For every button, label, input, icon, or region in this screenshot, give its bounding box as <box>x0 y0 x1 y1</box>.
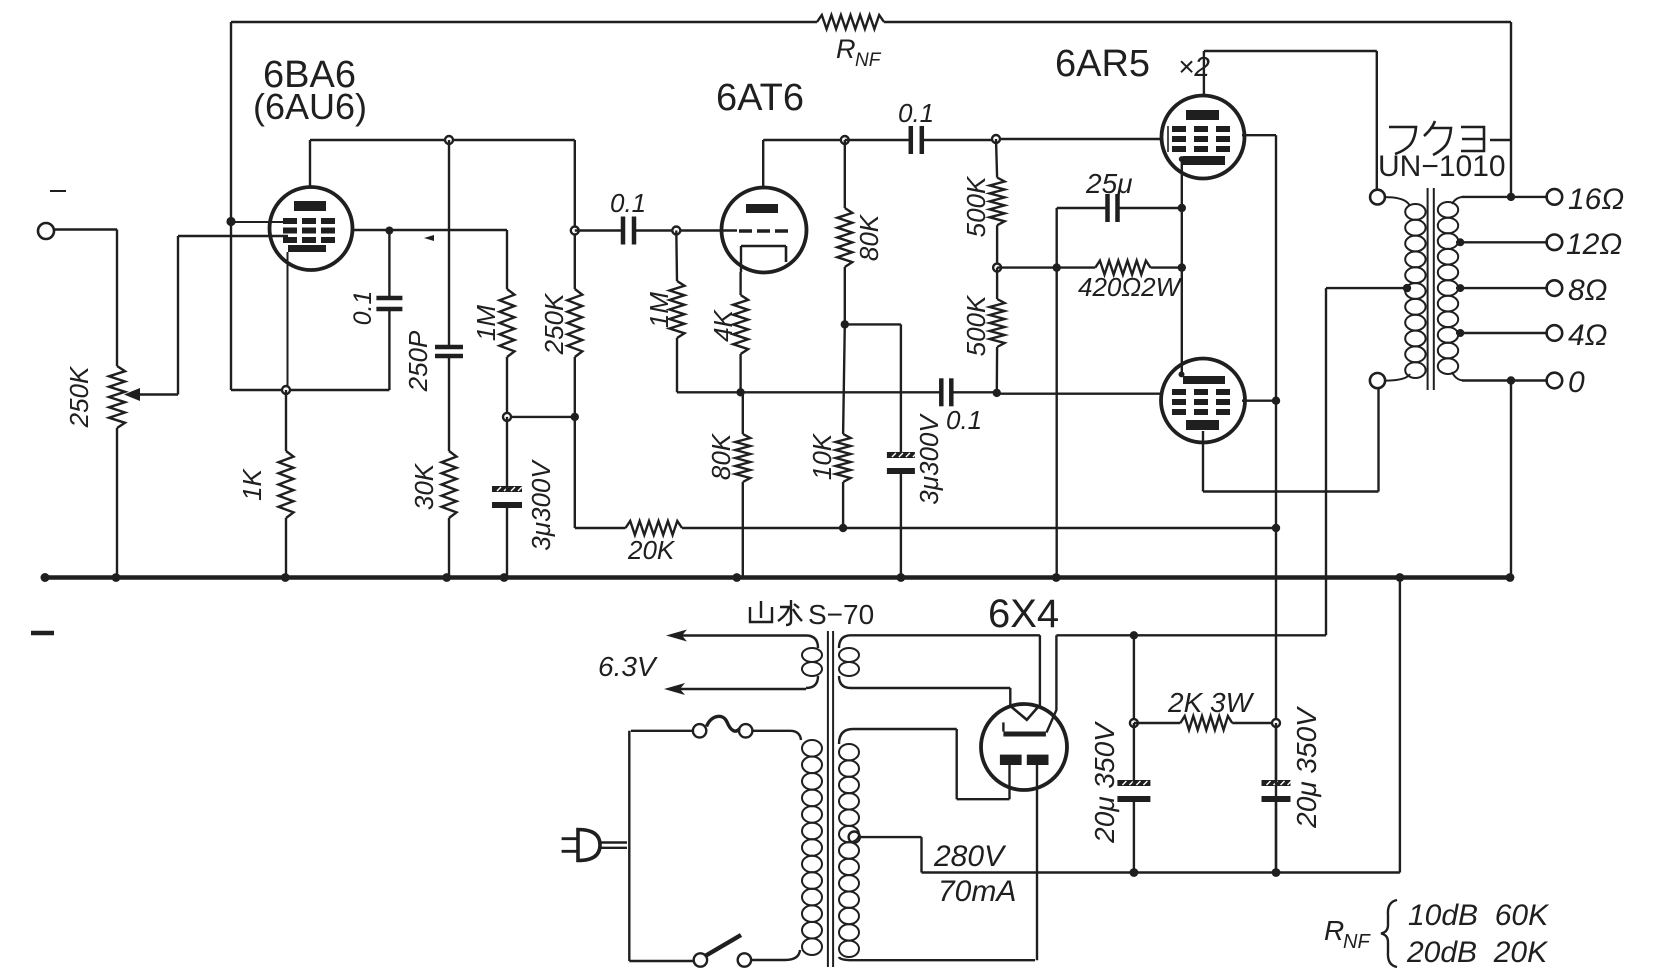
capacitor 20u 350V second <box>1262 780 1292 802</box>
wire 6AR5 upper screen <box>1242 134 1276 136</box>
svg-text:70mA: 70mA <box>938 875 1016 908</box>
label 16 ohm <box>1568 183 1624 216</box>
label 0.1 coupling second <box>898 98 934 128</box>
junction screens at 20K line <box>1272 524 1280 532</box>
svg-text:NF: NF <box>1343 931 1371 953</box>
svg-text:6.3V: 6.3V <box>598 651 658 682</box>
svg-text:0.1: 0.1 <box>349 291 377 326</box>
wire 4 ohm tap <box>1456 329 1548 337</box>
svg-text:420Ω2W: 420Ω2W <box>1078 272 1183 302</box>
wire fuse to primary <box>752 731 801 740</box>
junction 80K plate load top <box>841 136 849 144</box>
wire pot top <box>116 230 118 367</box>
wire screen bypass leads <box>388 231 390 391</box>
junction 420ohm cathode <box>1178 263 1186 271</box>
6AT6 cathode <box>741 246 786 272</box>
junction 420ohm ground side <box>1053 263 1061 271</box>
ground bus <box>41 573 1512 582</box>
resistor 420ohm 2W <box>1095 261 1150 275</box>
svg-text:6X4: 6X4 <box>988 592 1059 636</box>
wire 500K upper leads <box>996 139 997 268</box>
svg-text:250P: 250P <box>403 330 433 392</box>
heater winding loops <box>802 648 822 676</box>
svg-text:×2: ×2 <box>1178 51 1210 82</box>
wire 6AR5 lower screen <box>1242 400 1276 402</box>
label 4K <box>708 308 738 341</box>
capacitor 3u300V second <box>887 452 917 474</box>
resistor 1M screen <box>500 289 515 357</box>
terminal 4 ohm <box>1547 325 1563 341</box>
svg-text:1M: 1M <box>644 292 674 328</box>
junction bus 30K <box>442 573 451 582</box>
wire 0 tap to ground bus <box>1510 381 1512 578</box>
junction 250P tap <box>445 136 453 144</box>
wire 6BA6 cathode lead <box>287 252 289 390</box>
wire 6AR5 lower plate <box>1203 388 1379 492</box>
resistor 4K cathode <box>733 295 748 354</box>
rectifier winding bottom lead <box>839 676 1010 688</box>
wire 80K plate load leads <box>844 140 846 324</box>
wire cathode node line <box>231 389 389 391</box>
tube 6AR5 lower <box>1161 359 1245 443</box>
terminal 12 ohm <box>1547 235 1563 251</box>
wire 80K decoupler leads <box>742 392 744 577</box>
label 4 ohm <box>1568 319 1608 352</box>
svg-text:0.1: 0.1 <box>898 98 934 128</box>
tube 6X4 <box>981 704 1067 790</box>
wire 2K leads <box>1134 722 1276 724</box>
svg-text:0.1: 0.1 <box>946 405 982 435</box>
junction bus 3u first <box>500 573 509 582</box>
label 250K plate <box>539 292 569 355</box>
junction bus cathode net <box>1052 573 1061 582</box>
svg-text:280V: 280V <box>933 840 1007 873</box>
rectifier heater winding loops <box>839 648 859 676</box>
wire 16 ohm line <box>1462 196 1548 198</box>
6X4 heater notch <box>1010 706 1039 720</box>
tube 6BA6 <box>270 187 353 270</box>
6X4 plates <box>1000 755 1049 765</box>
power switch <box>694 935 751 967</box>
svg-text:(6AU6): (6AU6) <box>253 86 367 127</box>
label 420ohm 2W <box>1078 272 1183 302</box>
wire 250P drop <box>448 140 450 347</box>
resistor 500K upper <box>990 178 1005 226</box>
label 20u 350V first <box>1089 721 1120 844</box>
OPT primary winding <box>1385 197 1426 381</box>
svg-text:20μ 350V: 20μ 350V <box>1291 706 1322 829</box>
primary winding loops <box>802 740 822 955</box>
label 6AT6 <box>716 77 804 119</box>
svg-text:3μ300V: 3μ300V <box>914 413 944 505</box>
label 2K 3W <box>1167 687 1255 718</box>
6AR5 upper cathode pin <box>1179 156 1185 162</box>
resistor 250K plate load <box>567 289 582 357</box>
svg-text:0.1: 0.1 <box>610 188 646 218</box>
resistor 1M grid 6AT6 <box>670 281 685 338</box>
junction 2K left <box>1130 719 1138 727</box>
svg-text:UN−1010: UN−1010 <box>1378 150 1506 183</box>
wire 20K to screens B+ <box>682 527 1276 529</box>
wire input to volume pot <box>54 228 117 230</box>
tube 6AT6 <box>722 188 807 273</box>
wire heater left leg <box>1009 688 1011 707</box>
HV winding top lead <box>839 729 957 744</box>
junction OPT CT <box>1403 284 1411 292</box>
label fukuyo katakana <box>1389 121 1512 155</box>
label 70mA <box>938 875 1016 908</box>
wire 20K feed <box>575 417 626 528</box>
svg-text:12Ω: 12Ω <box>1566 228 1622 261</box>
input terminal <box>38 191 66 239</box>
svg-text:500K: 500K <box>961 294 991 356</box>
junction screen bypass top <box>385 227 393 235</box>
wire 6X4 plate1 to HV top <box>957 729 1010 799</box>
HV winding bottom lead <box>839 957 1035 960</box>
label (6AU6) <box>253 86 367 127</box>
resistor 20K <box>626 521 683 535</box>
wire cathode tie line <box>1181 159 1183 374</box>
wire 3u second to bus <box>900 470 902 578</box>
wire feedback line y392 <box>741 391 997 393</box>
svg-text:4Ω: 4Ω <box>1568 319 1608 352</box>
resistor 2K 3W <box>1180 716 1232 730</box>
svg-text:250K: 250K <box>64 365 94 428</box>
OPT primary top terminal <box>1370 190 1385 205</box>
junction cathode-NFB drop <box>226 217 235 226</box>
label UN-1010 <box>1378 150 1506 183</box>
junction 4K-80K node <box>736 388 744 396</box>
wire 20u second leads <box>1275 723 1277 873</box>
wire 4K leads <box>739 272 741 392</box>
resistor 80K decoupler <box>735 434 750 482</box>
wire 1M bottom <box>506 357 508 417</box>
junction 500K upper <box>992 135 1000 143</box>
label 25u <box>1085 168 1132 199</box>
label 1M grid <box>644 292 674 328</box>
label 500K lower <box>961 294 991 356</box>
wire 420ohm leads <box>997 266 1182 268</box>
wire to lower 6AR5 grid <box>997 393 1163 395</box>
wire 20u first bottom <box>1133 723 1135 873</box>
svg-text:S−70: S−70 <box>808 599 874 630</box>
AC plug <box>562 830 627 861</box>
6AR5 lower internals <box>1172 376 1230 430</box>
label 250K pot <box>64 365 94 428</box>
svg-text:30K: 30K <box>409 462 439 510</box>
junction 2K right <box>1272 719 1280 727</box>
wire 6X4 plate2 to HV bottom <box>1036 765 1038 960</box>
OPT primary bottom terminal <box>1370 373 1385 388</box>
svg-text:80K: 80K <box>854 213 884 261</box>
junction 500K midpoint <box>993 264 1001 272</box>
wire 1K leads <box>285 390 287 578</box>
potentiometer 250K volume <box>109 366 125 428</box>
wire B+ from cathode <box>1047 635 1327 732</box>
svg-text:1K: 1K <box>237 467 267 500</box>
label 3u300V first <box>526 459 556 551</box>
junction coupling tap <box>571 227 579 235</box>
label 6X4 <box>988 592 1059 636</box>
junction 500K lower <box>993 389 1001 397</box>
svg-text:R: R <box>836 34 856 64</box>
svg-text:20μ 350V: 20μ 350V <box>1089 721 1120 844</box>
capacitor 0.1 in line <box>941 378 951 406</box>
svg-text:NF: NF <box>855 50 882 71</box>
junction 3u cap node <box>503 413 511 421</box>
OPT core <box>1428 188 1434 390</box>
wire screens B+ vertical <box>1275 135 1277 872</box>
label 0.1 coupling first <box>610 188 646 218</box>
svg-text:3μ300V: 3μ300V <box>526 459 556 551</box>
label 6BA6 <box>263 54 356 96</box>
junction bus PSU return <box>1396 573 1405 582</box>
terminal 8 ohm <box>1547 280 1563 296</box>
6AR5 upper internals <box>1168 110 1230 165</box>
wire 20u first top <box>1133 635 1135 723</box>
wire coupling second leads <box>845 139 1163 140</box>
power transformer core <box>828 631 833 967</box>
svg-text:250K: 250K <box>539 292 569 355</box>
junction bus 3u second <box>897 573 906 582</box>
junction 10K bottom <box>839 524 847 532</box>
junction NFB takeoff <box>1507 193 1515 201</box>
terminal 16 ohm <box>1547 189 1563 205</box>
wire heater right leg <box>1039 635 1041 706</box>
wire NFB top from 6BA6 cathode to 16-ohm tap <box>231 21 1511 24</box>
capacitor 0.1 coupling first <box>623 217 634 245</box>
svg-text:2K 3W: 2K 3W <box>1167 687 1255 718</box>
resistor 80K plate load <box>837 208 852 267</box>
6AT6 grid dashes <box>739 229 788 233</box>
6X4 cathode bar <box>1003 722 1046 736</box>
svg-text:20K: 20K <box>627 535 676 565</box>
wire 10K leads <box>843 324 845 528</box>
label 1K <box>237 467 267 500</box>
OPT secondary winding <box>1438 197 1464 381</box>
6AT6 plate bar <box>746 204 778 213</box>
HV center tap <box>849 832 922 873</box>
wire 0 ohm line <box>1462 379 1548 381</box>
HV winding loops <box>839 744 859 957</box>
wire 6AT6 plate up <box>763 140 845 188</box>
wire 25u leads <box>1057 207 1182 209</box>
wire mains left <box>629 731 693 961</box>
resistor 10K <box>836 434 851 482</box>
label 10K <box>807 432 837 480</box>
6BA6 internal electrodes <box>283 201 335 252</box>
label RNF <box>836 34 882 71</box>
junction 20K feed node <box>571 413 579 421</box>
wire 6BA6 plate lead up <box>309 140 311 188</box>
wire dropper node to 3u cap <box>845 324 901 456</box>
junction bus 1K <box>281 573 290 582</box>
svg-text:6AR5: 6AR5 <box>1055 43 1150 85</box>
wire OPT CT to B+ <box>1326 288 1404 635</box>
svg-text:80K: 80K <box>706 432 736 480</box>
pot wiper arrow <box>124 236 288 401</box>
junction bus 80K dec <box>732 573 741 582</box>
wire grid3 pin into 6BA6 <box>231 221 290 223</box>
wire pot bottom to ground bus <box>116 428 118 578</box>
resistor 1K cathode <box>279 451 294 518</box>
junction dropper node <box>841 320 849 328</box>
label 6.3V <box>598 651 658 682</box>
capacitor 25u cathode bypass <box>1108 194 1118 222</box>
svg-text:1M: 1M <box>471 305 501 341</box>
wire 250K bottom <box>574 357 576 417</box>
tube 6AR5 upper <box>1162 96 1245 179</box>
label 1M screen <box>471 305 501 341</box>
junction 1M grid leak <box>672 227 680 235</box>
svg-text:R: R <box>1324 915 1344 946</box>
capacitor 0.1 screen bypass <box>376 298 402 309</box>
wire plate supply drop <box>574 140 576 289</box>
label 0.1 in line <box>946 405 982 435</box>
svg-text:20dB 20K: 20dB 20K <box>1406 936 1549 969</box>
junction bus pot <box>112 573 121 582</box>
label 0 ohm <box>1568 366 1585 399</box>
capacitor 250P <box>435 347 463 356</box>
label 20K <box>627 535 676 565</box>
wire left drop from NFB wire to cathode node <box>230 22 232 390</box>
svg-text:10dB 60K: 10dB 60K <box>1408 899 1550 932</box>
capacitor 0.1 coupling second <box>911 126 922 154</box>
svg-text:25μ: 25μ <box>1085 168 1132 199</box>
capacitor 20u 350V first <box>1117 780 1150 802</box>
wire 8 ohm tap <box>1456 284 1548 292</box>
resistor 30K <box>442 451 457 518</box>
label 280V <box>933 840 1007 873</box>
screen line arrow artifact <box>424 235 434 241</box>
capacitor 3u300V decoupling <box>492 486 522 508</box>
heater arrows 6.3V <box>664 630 818 696</box>
wire 3u300V leads <box>506 417 508 578</box>
svg-text:500K: 500K <box>961 175 991 237</box>
label 3u300V second <box>914 413 944 505</box>
label 80K plate load <box>854 213 884 261</box>
svg-text:16Ω: 16Ω <box>1568 183 1624 216</box>
wire PSU common <box>922 578 1400 873</box>
junction 25u cathode <box>1178 204 1186 212</box>
label Sansui S-70 <box>750 599 874 630</box>
wire 30K to ground bus <box>448 518 450 578</box>
6AR5 lower cathode pin <box>1179 371 1185 377</box>
junction 20u first common <box>1130 868 1139 877</box>
label 20u 350V second <box>1291 706 1322 829</box>
svg-text:0: 0 <box>1568 366 1585 399</box>
wire right drop from NFB wire to 16-ohm line <box>1510 22 1512 197</box>
junction 0 ohm ground drop <box>1507 376 1515 384</box>
terminal 0 ohm <box>1547 373 1563 389</box>
label 500K upper <box>961 175 991 237</box>
wire plate line <box>310 139 575 141</box>
wire switch to primary <box>751 950 800 960</box>
junction 1K top <box>282 386 290 394</box>
junction B+ raw <box>1130 631 1138 639</box>
svg-text:8Ω: 8Ω <box>1568 274 1608 307</box>
wire cathode ground drop <box>1055 208 1057 578</box>
rectifier winding top lead <box>839 635 1040 648</box>
fuse <box>693 716 753 737</box>
svg-text:10K: 10K <box>807 432 837 480</box>
label 8 ohm <box>1568 274 1608 307</box>
wire 1M grid leads <box>676 231 740 393</box>
label 30K <box>409 462 439 510</box>
junction lower screen <box>1272 397 1280 405</box>
wire 6BA6 screen line <box>352 230 507 289</box>
wire 6AR5 upper plate <box>1204 51 1377 190</box>
label 12 ohm <box>1566 228 1622 261</box>
resistor 500K lower <box>990 299 1005 347</box>
wire 250P to 30K <box>448 356 450 451</box>
wire 500K lower leads <box>996 268 999 393</box>
label 0.1 bypass <box>349 291 377 326</box>
wire decoupled B+ node <box>507 416 575 418</box>
wire coupling cap leads <box>575 229 737 231</box>
label RNF table <box>1324 899 1550 969</box>
label 6AR5 x2 <box>1055 43 1210 85</box>
wire 12 ohm tap <box>1456 238 1548 246</box>
label 250P <box>403 330 433 392</box>
svg-text:6AT6: 6AT6 <box>716 77 804 119</box>
label 80K decoupler <box>706 432 736 480</box>
minus mark <box>31 631 54 636</box>
junction bus 0 tap <box>1506 573 1515 582</box>
junction 20u second common <box>1272 868 1281 877</box>
resistor RNF <box>817 15 884 29</box>
svg-text:4K: 4K <box>708 308 738 341</box>
